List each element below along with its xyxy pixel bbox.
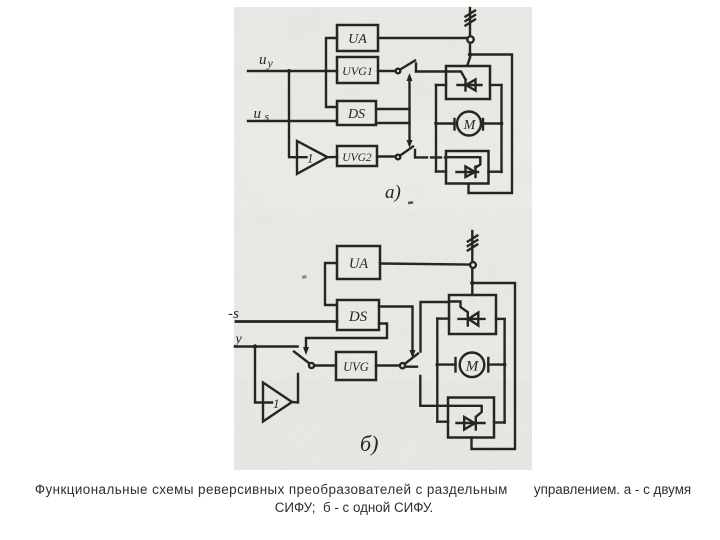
svg-text:б): б) bbox=[360, 431, 378, 456]
svg-text:UA: UA bbox=[348, 32, 367, 47]
svg-text:M: M bbox=[463, 118, 477, 133]
svg-text:UVG1: UVG1 bbox=[342, 64, 373, 78]
svg-text:1: 1 bbox=[273, 396, 280, 411]
svg-text:u: u bbox=[259, 52, 267, 68]
svg-text:M: M bbox=[465, 359, 480, 375]
svg-text:DS: DS bbox=[347, 107, 365, 122]
svg-text:1: 1 bbox=[307, 151, 314, 166]
svg-text:а): а) bbox=[385, 182, 401, 203]
svg-text:-s: -s bbox=[228, 306, 239, 322]
svg-text:s: s bbox=[265, 110, 270, 124]
svg-text:DS: DS bbox=[348, 309, 368, 325]
svg-text:y: y bbox=[267, 56, 274, 70]
svg-text:UA: UA bbox=[349, 256, 368, 272]
svg-text:u: u bbox=[254, 106, 262, 122]
svg-text:UVG2: UVG2 bbox=[342, 152, 372, 164]
svg-text:y: y bbox=[234, 332, 243, 347]
svg-text:UVG: UVG bbox=[343, 360, 369, 374]
